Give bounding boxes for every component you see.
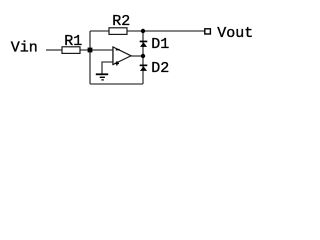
wire right vertical rail through D1 and D2 <box>142 31 144 84</box>
wire bottom feedback rail <box>90 83 143 85</box>
svg-text:R2: R2 <box>112 13 130 30</box>
wire top rail R2 row to Vout terminal <box>90 30 205 32</box>
node junction at R1 output / inverting input <box>88 48 93 53</box>
ground <box>96 73 108 80</box>
node junction top rail at D1 <box>141 29 145 33</box>
svg-text:Vin: Vin <box>11 40 38 57</box>
node junction op-amp output <box>141 54 145 58</box>
op-amp U1 <box>112 47 114 65</box>
diode D2 <box>140 65 148 71</box>
resistor R2 <box>109 28 127 35</box>
wire left vertical branch node A to R2 and feedback bottom <box>89 31 91 84</box>
wire op-amp noninverting input to ground <box>102 62 113 74</box>
svg-text:R1: R1 <box>64 33 82 50</box>
resistor R1 <box>62 47 80 54</box>
diode D1 <box>140 41 148 47</box>
svg-text:D1: D1 <box>151 36 169 53</box>
wire Vin input to R1 <box>46 49 62 51</box>
op-amp inverting input minus mark <box>116 49 120 51</box>
terminal Vout pin <box>205 29 211 34</box>
op-amp noninverting input plus mark <box>115 61 119 65</box>
wire op-amp output <box>131 55 143 57</box>
svg-text:D2: D2 <box>151 60 169 77</box>
svg-text:Vout: Vout <box>217 25 253 42</box>
wire R1 to op-amp inverting input <box>80 49 113 51</box>
